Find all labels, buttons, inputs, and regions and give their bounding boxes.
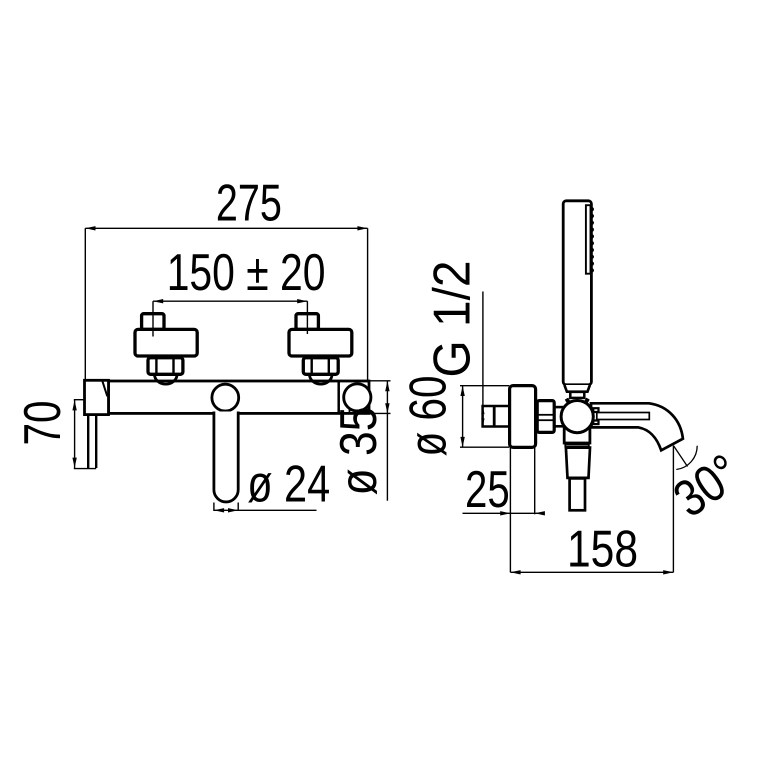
svg-text:150 ± 20: 150 ± 20 xyxy=(167,244,326,302)
svg-text:70: 70 xyxy=(14,401,72,446)
svg-text:ø 35: ø 35 xyxy=(330,407,388,496)
svg-text:ø 24: ø 24 xyxy=(247,456,330,514)
svg-text:158: 158 xyxy=(567,521,638,579)
svg-text:ø 60: ø 60 xyxy=(400,376,458,457)
svg-text:25: 25 xyxy=(465,461,510,519)
svg-text:275: 275 xyxy=(216,174,282,232)
svg-text:G 1/2: G 1/2 xyxy=(424,261,482,378)
